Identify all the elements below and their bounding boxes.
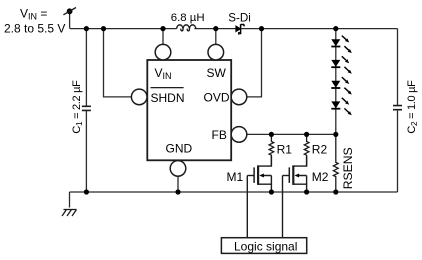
label SHDN pin xyxy=(151,88,185,105)
wire SW branch xyxy=(215,29,217,45)
node rail RSENS xyxy=(333,189,338,194)
wire input lead xyxy=(69,11,71,28)
node rail M2 xyxy=(304,189,309,194)
svg-text:C1 = 2.2 µF: C1 = 2.2 µF xyxy=(71,80,84,134)
svg-text:S-Di: S-Di xyxy=(228,12,251,25)
node top OVD xyxy=(259,26,264,31)
wire M2 gate to logic xyxy=(282,176,284,238)
wire OVD branch xyxy=(247,29,262,97)
node top SW xyxy=(213,26,218,31)
node rail GND xyxy=(175,189,180,194)
pin FB xyxy=(231,127,247,143)
node FB R1 xyxy=(269,132,274,137)
wire bottom rail xyxy=(70,191,398,193)
svg-text:6.8 µH: 6.8 µH xyxy=(171,12,205,24)
wire FB net xyxy=(247,133,336,135)
transistor M1 xyxy=(247,156,271,192)
IC U1 xyxy=(147,60,231,160)
wire C1 branch xyxy=(85,29,87,192)
svg-text:SW: SW xyxy=(207,66,227,80)
diode S-Di xyxy=(236,24,244,34)
wire GND pin stub xyxy=(177,176,179,192)
svg-text:VIN =: VIN = xyxy=(20,6,47,21)
svg-text:M1: M1 xyxy=(227,170,244,184)
logic signal box xyxy=(221,238,306,254)
svg-text:R1: R1 xyxy=(277,142,293,156)
svg-text:OVD: OVD xyxy=(204,91,230,105)
svg-text:RSENS: RSENS xyxy=(341,147,355,189)
terminal input xyxy=(63,8,76,15)
LED D3 xyxy=(331,77,352,95)
node top C1 xyxy=(84,26,89,31)
node FB R2 xyxy=(304,132,309,137)
node FB RSENS xyxy=(333,132,338,137)
node rail M1 xyxy=(269,189,274,194)
pin GND xyxy=(170,161,186,177)
svg-text:C2 = 1.0 µF: C2 = 1.0 µF xyxy=(406,80,419,134)
wire top rail xyxy=(70,28,398,30)
wire M1 gate to logic xyxy=(246,176,248,238)
wire SHDN branch xyxy=(104,29,132,97)
wire LED branch xyxy=(335,29,337,135)
resistor R2 xyxy=(304,134,309,166)
ground xyxy=(62,210,77,217)
svg-text:M2: M2 xyxy=(312,170,329,184)
capacitor C2 xyxy=(393,106,402,110)
wire VIN branch xyxy=(162,29,164,45)
svg-text:Logic signal: Logic signal xyxy=(234,239,297,253)
resistor R1 xyxy=(269,134,274,166)
pin SHDN xyxy=(131,89,147,105)
svg-text:SHDN: SHDN xyxy=(151,91,185,105)
LED D1 xyxy=(331,36,352,54)
LED D2 xyxy=(331,56,352,74)
pin OVD xyxy=(231,89,247,105)
node top SHDN xyxy=(101,26,106,31)
LED D4 xyxy=(331,98,352,116)
svg-text:R2: R2 xyxy=(312,142,328,156)
inductor L1 xyxy=(177,25,196,31)
svg-text:FB: FB xyxy=(212,128,227,142)
pin VIN xyxy=(155,44,171,60)
node top LED xyxy=(333,26,338,31)
capacitor C1 xyxy=(82,106,91,110)
wire right rail xyxy=(397,29,399,192)
svg-text:GND: GND xyxy=(166,142,193,156)
resistor RSENS xyxy=(333,134,338,192)
node rail C1 xyxy=(84,189,89,194)
pin SW xyxy=(208,44,224,60)
node top VIN xyxy=(160,26,165,31)
transistor M2 xyxy=(283,156,307,192)
wire ground stub xyxy=(69,192,71,208)
svg-text:2.8 to 5.5 V: 2.8 to 5.5 V xyxy=(4,21,65,35)
